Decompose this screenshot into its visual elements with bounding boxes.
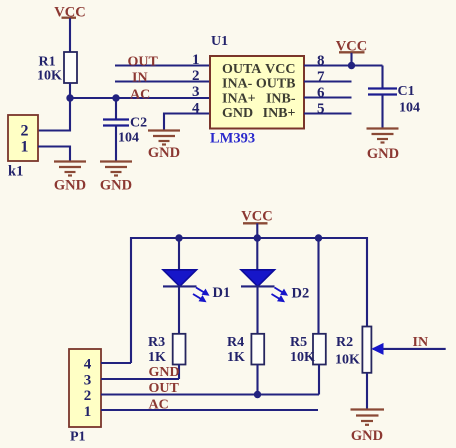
svg-text:R1: R1 xyxy=(39,55,56,70)
svg-text:R4: R4 xyxy=(227,335,244,350)
svg-text:1: 1 xyxy=(192,52,200,68)
svg-text:3: 3 xyxy=(192,84,200,100)
svg-text:GND: GND xyxy=(149,365,180,380)
svg-text:P1: P1 xyxy=(70,430,86,445)
svg-text:6: 6 xyxy=(317,85,325,101)
svg-text:GND: GND xyxy=(100,178,132,194)
op-amp U1 LM393 xyxy=(210,56,304,129)
svg-text:D2: D2 xyxy=(292,286,310,302)
wire U1 pin 6 stub xyxy=(304,96,352,98)
svg-text:U1: U1 xyxy=(211,34,228,49)
svg-text:1K: 1K xyxy=(148,350,166,365)
power VCC bottom xyxy=(241,209,272,239)
svg-text:C2: C2 xyxy=(130,116,147,131)
wire VCC rail xyxy=(131,238,367,363)
node junction dot C2 xyxy=(112,94,119,101)
LED D2 xyxy=(241,238,288,334)
svg-text:INB+: INB+ xyxy=(263,106,296,121)
svg-text:2: 2 xyxy=(192,68,200,84)
wire U1 pin 7 stub xyxy=(304,80,352,82)
svg-text:1K: 1K xyxy=(227,350,245,365)
svg-text:2: 2 xyxy=(21,123,29,140)
svg-text:GND: GND xyxy=(351,428,383,444)
wire OUT to U1 pin 1 xyxy=(115,64,210,66)
svg-text:OUTB: OUTB xyxy=(256,77,296,92)
node junction dot R4/OUT xyxy=(254,391,261,398)
svg-text:R2: R2 xyxy=(336,335,353,350)
wire U1 pin 5 stub xyxy=(304,112,352,114)
svg-text:VCC: VCC xyxy=(241,209,272,225)
svg-text:2: 2 xyxy=(84,388,92,404)
ground G4 under C1 xyxy=(367,129,400,163)
resistor R1 xyxy=(37,52,77,84)
wire R3 bottom xyxy=(178,365,180,380)
resistor R3 xyxy=(148,334,186,365)
wire R5 top xyxy=(317,238,319,334)
wiper arrow and wire IN xyxy=(371,343,445,355)
svg-text:IN: IN xyxy=(413,335,429,350)
connector k1 xyxy=(8,115,38,161)
resistor R5 xyxy=(290,334,326,365)
wire P1 pin 2 OUT net xyxy=(101,393,319,395)
wire P1 pin 3 GND net xyxy=(101,378,179,380)
node junction dot VCC pin8 xyxy=(348,62,355,69)
node junction dot R5 xyxy=(315,234,322,241)
svg-text:10K: 10K xyxy=(335,353,360,368)
power VCC top-left xyxy=(54,5,85,53)
svg-text:OUT: OUT xyxy=(149,381,180,396)
svg-text:R3: R3 xyxy=(148,335,165,350)
ground G1 under k1 xyxy=(54,162,86,194)
svg-text:k1: k1 xyxy=(8,164,23,180)
svg-text:OUTA: OUTA xyxy=(222,62,262,77)
svg-text:1: 1 xyxy=(84,404,92,420)
svg-text:R5: R5 xyxy=(290,335,307,350)
svg-text:104: 104 xyxy=(118,131,139,146)
svg-text:OUT: OUT xyxy=(128,55,159,70)
svg-text:GND: GND xyxy=(367,146,399,162)
node junction dot D1 xyxy=(175,234,182,241)
svg-text:IN: IN xyxy=(132,71,148,86)
svg-text:INA+: INA+ xyxy=(222,91,256,106)
ground G3 under U1 pin 4 xyxy=(148,131,180,162)
potentiometer R2 xyxy=(335,327,371,373)
wire U1 pin 8 xyxy=(304,64,383,66)
wire IN to U1 pin 2 xyxy=(115,80,210,82)
svg-text:AC: AC xyxy=(130,88,150,103)
svg-text:VCC: VCC xyxy=(265,62,295,77)
node junction dot left xyxy=(66,94,73,101)
wire R1 bottom to node xyxy=(69,83,71,98)
svg-text:D1: D1 xyxy=(213,285,231,301)
svg-text:4: 4 xyxy=(84,357,92,373)
svg-text:GND: GND xyxy=(54,178,86,194)
wire R5 bottom xyxy=(318,365,320,395)
wire node to k1 pin2 xyxy=(38,98,70,131)
wire P1 pin 1 AC net xyxy=(101,409,318,411)
resistor R4 xyxy=(227,334,264,365)
wire R4 bottom xyxy=(256,365,258,395)
svg-text:C1: C1 xyxy=(398,84,415,99)
svg-text:3: 3 xyxy=(84,373,92,389)
ground G5 under R2 xyxy=(351,410,385,445)
svg-text:104: 104 xyxy=(399,101,420,116)
svg-text:GND: GND xyxy=(222,106,253,121)
ground G2 under C2 xyxy=(100,162,132,194)
wire P1 pin 4 to rail xyxy=(101,362,131,364)
wire k1 pin1 to ground xyxy=(38,147,70,162)
svg-text:AC: AC xyxy=(149,398,169,413)
capacitor C2 xyxy=(103,98,147,162)
svg-text:8: 8 xyxy=(317,53,325,69)
capacitor C1 xyxy=(368,66,420,129)
svg-text:GND: GND xyxy=(148,145,180,161)
connector P1 xyxy=(69,349,101,427)
wire R2 bottom xyxy=(366,373,368,410)
wire U1 pin 4 xyxy=(164,114,210,131)
svg-text:INB-: INB- xyxy=(266,91,296,106)
wire AC horizontal to U1 pin 3 xyxy=(70,97,210,99)
power VCC right xyxy=(336,39,367,66)
svg-text:10K: 10K xyxy=(290,350,315,365)
svg-text:1: 1 xyxy=(21,139,29,156)
node junction dot D2/VCC xyxy=(254,234,261,241)
svg-text:LM393: LM393 xyxy=(210,131,255,147)
svg-text:10K: 10K xyxy=(37,69,62,84)
LED D1 xyxy=(163,238,210,334)
svg-text:5: 5 xyxy=(317,101,325,117)
svg-text:7: 7 xyxy=(317,69,325,85)
svg-text:INA-: INA- xyxy=(222,77,253,92)
